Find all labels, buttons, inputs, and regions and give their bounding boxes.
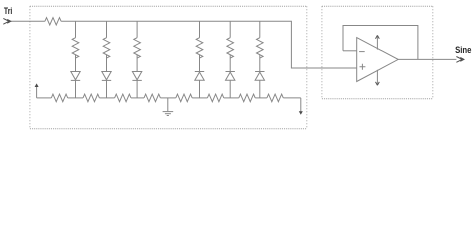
svg-text:Sine: Sine	[455, 45, 471, 55]
svg-text:Tri: Tri	[4, 6, 12, 16]
